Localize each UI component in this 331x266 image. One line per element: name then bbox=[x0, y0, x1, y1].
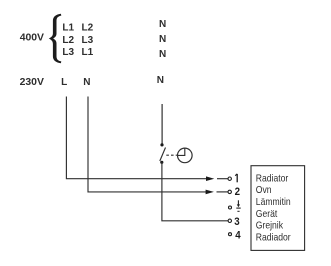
svg-text:N: N bbox=[83, 77, 90, 88]
svg-text:N: N bbox=[159, 49, 166, 60]
brace for 400V phase combinations bbox=[49, 14, 62, 63]
svg-text:L2: L2 bbox=[62, 35, 74, 46]
legend text bbox=[256, 173, 291, 243]
svg-text:L1: L1 bbox=[62, 23, 74, 34]
switch blade S1 bbox=[160, 148, 166, 162]
terminal earth bbox=[229, 206, 232, 209]
phase label L3 L1 (row 3) bbox=[62, 47, 93, 58]
legend box bbox=[251, 166, 305, 251]
svg-text:4: 4 bbox=[235, 230, 241, 242]
arrowhead on L wire bbox=[206, 176, 214, 181]
wire stub to terminal 1 bbox=[217, 178, 228, 180]
svg-text:L2: L2 bbox=[82, 23, 94, 34]
wire N right: vertical drop to switch bbox=[161, 104, 163, 145]
wire from switch to terminal 3 bbox=[162, 162, 228, 221]
svg-text:Gerät: Gerät bbox=[256, 208, 278, 219]
svg-text:L1: L1 bbox=[82, 47, 94, 58]
svg-text:Radiador: Radiador bbox=[256, 232, 291, 243]
svg-text:Ovn: Ovn bbox=[256, 185, 272, 196]
svg-text:N: N bbox=[157, 75, 164, 86]
svg-text:230V: 230V bbox=[20, 77, 44, 88]
phase label L1 L2 (row 1) bbox=[62, 23, 93, 34]
wire N: vertical drop and horizontal run to terminal 2 bbox=[88, 97, 206, 192]
terminal 1 bbox=[228, 177, 231, 180]
junction dot (switch bottom contact) bbox=[160, 161, 163, 164]
svg-text:L: L bbox=[61, 77, 67, 88]
arrowhead on N wire bbox=[206, 190, 214, 195]
dashed actuator link bbox=[166, 154, 177, 156]
wire stub to terminal 2 bbox=[217, 191, 228, 193]
terminal 4 bbox=[229, 233, 232, 236]
svg-text:3: 3 bbox=[234, 216, 240, 228]
svg-text:N: N bbox=[159, 19, 166, 30]
svg-text:Lämmitin: Lämmitin bbox=[256, 196, 291, 207]
svg-text:N: N bbox=[159, 34, 166, 45]
svg-text:L3: L3 bbox=[82, 35, 94, 46]
terminal 3 bbox=[228, 219, 231, 222]
phase label L2 L3 (row 2) bbox=[62, 35, 93, 46]
thermostat/timer symbol B1 bbox=[178, 148, 193, 163]
wire L: vertical drop and horizontal run to terminal 1 bbox=[66, 97, 206, 179]
svg-text:L3: L3 bbox=[62, 47, 74, 58]
svg-text:Radiator: Radiator bbox=[256, 173, 288, 184]
svg-text:2: 2 bbox=[235, 187, 241, 199]
svg-text:400V: 400V bbox=[20, 33, 44, 44]
earth symbol bbox=[236, 200, 240, 211]
svg-text:Grejnik: Grejnik bbox=[256, 220, 284, 231]
terminal 2 bbox=[228, 190, 231, 193]
junction dot (switch top contact) bbox=[160, 143, 163, 146]
